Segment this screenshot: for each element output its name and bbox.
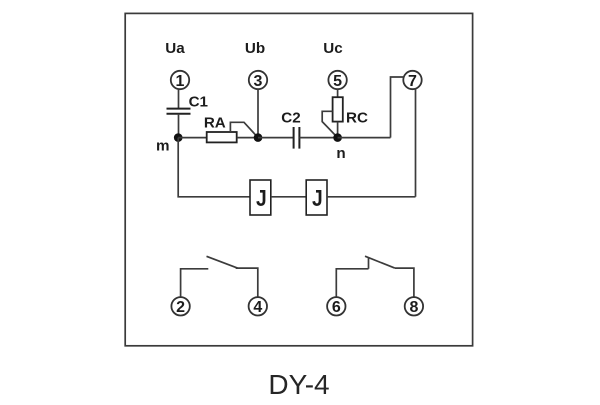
wire node3 to C2 bbox=[258, 137, 294, 139]
svg-text:1: 1 bbox=[176, 73, 185, 90]
terminal circle 4 bbox=[249, 297, 267, 316]
riser to circle 7 bbox=[391, 77, 404, 138]
svg-text:Ua: Ua bbox=[165, 40, 185, 57]
svg-text:n: n bbox=[336, 145, 345, 162]
wire RA to node 3 bbox=[237, 137, 258, 139]
svg-text:m: m bbox=[156, 138, 170, 155]
capacitor C2 bbox=[294, 127, 300, 149]
wire circle7 down bbox=[415, 89, 417, 197]
contact 6-8 left lead bbox=[336, 269, 368, 297]
svg-text:4: 4 bbox=[253, 299, 262, 316]
contact 6-8 fixed tick bbox=[368, 258, 370, 269]
svg-text:DY-4: DY-4 bbox=[268, 369, 329, 400]
resistor RC bbox=[333, 97, 343, 121]
svg-text:2: 2 bbox=[176, 299, 185, 316]
contact 2-4 left lead bbox=[181, 269, 209, 297]
node under 3 bbox=[254, 133, 263, 142]
svg-text:6: 6 bbox=[332, 299, 341, 316]
wire m down to coil loop bbox=[178, 138, 250, 197]
svg-text:J: J bbox=[312, 185, 323, 211]
svg-text:Uc: Uc bbox=[323, 40, 342, 57]
terminal circle 1 bbox=[171, 71, 189, 90]
RA tap arm bbox=[230, 122, 258, 137]
wire circle3 down bbox=[257, 89, 259, 137]
svg-text:5: 5 bbox=[333, 73, 342, 90]
svg-text:8: 8 bbox=[409, 299, 418, 316]
wire RC to node n bbox=[337, 122, 339, 138]
terminal circle 7 bbox=[403, 71, 421, 90]
wire between coils bbox=[271, 196, 306, 198]
wire C2 to node n bbox=[299, 137, 337, 139]
relay coil J (right) bbox=[306, 180, 327, 215]
relay coil J (left) bbox=[250, 180, 271, 215]
wire n to riser bbox=[338, 137, 391, 139]
resistor RA bbox=[207, 132, 237, 142]
wire circle1 to C1 bbox=[178, 89, 180, 108]
node m bbox=[174, 133, 183, 142]
svg-text:Ub: Ub bbox=[245, 40, 265, 57]
node n bbox=[333, 133, 342, 142]
terminal circle 5 bbox=[328, 71, 346, 90]
capacitor C1 bbox=[167, 109, 191, 114]
terminal circle 2 bbox=[171, 297, 189, 316]
contact 6-8 right lead bbox=[395, 268, 414, 297]
wire circle5 to RC bbox=[337, 89, 339, 97]
contact 2-4 right lead bbox=[236, 268, 258, 297]
svg-text:3: 3 bbox=[254, 73, 263, 90]
svg-text:C1: C1 bbox=[189, 94, 209, 111]
contact 2-4 blade bbox=[207, 256, 238, 268]
contact 6-8 blade bbox=[365, 256, 395, 268]
terminal circle 3 bbox=[249, 71, 267, 90]
wire coil to right riser bbox=[327, 196, 416, 198]
terminal circle 6 bbox=[327, 297, 345, 316]
wire C1 to node m bbox=[178, 114, 180, 138]
svg-text:RC: RC bbox=[346, 110, 368, 127]
RC tap arm bbox=[322, 111, 337, 137]
svg-text:C2: C2 bbox=[281, 110, 300, 127]
svg-text:7: 7 bbox=[408, 73, 417, 90]
terminal circle 8 bbox=[405, 297, 423, 316]
svg-text:RA: RA bbox=[204, 114, 226, 131]
wire m to RA bbox=[178, 137, 207, 139]
svg-text:J: J bbox=[256, 185, 267, 211]
